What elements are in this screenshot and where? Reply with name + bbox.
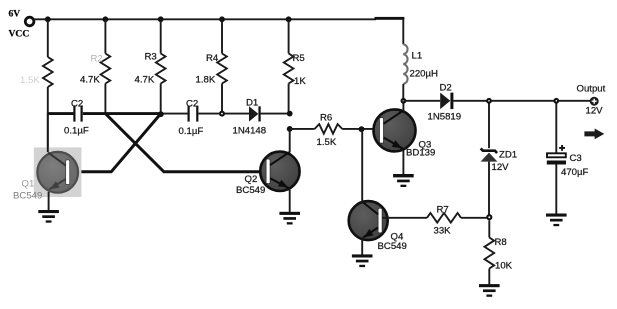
svg-text:R8: R8 [495, 237, 507, 248]
svg-text:R3: R3 [145, 52, 157, 63]
node X [158, 111, 164, 117]
node ZD1/R7/R8 [486, 214, 492, 220]
svg-text:R6: R6 [320, 113, 332, 124]
resistor R8 [484, 220, 512, 284]
svg-text:R5: R5 [293, 53, 305, 64]
transistor Q1 highlight [34, 147, 82, 197]
node rail R4 [219, 16, 225, 22]
svg-text:D2: D2 [440, 83, 452, 94]
wire cross-couple A (to Q2 base) [105, 114, 266, 172]
node rail R5 [286, 16, 292, 22]
ground Q1 [38, 210, 59, 223]
node rail R2 [103, 16, 109, 22]
resistor R1 [20, 19, 53, 152]
svg-text:12V: 12V [586, 106, 604, 117]
svg-text:C3: C3 [570, 153, 582, 164]
svg-text:L1: L1 [412, 51, 423, 62]
svg-text:BC549: BC549 [236, 185, 265, 196]
ground C3 [546, 214, 567, 227]
svg-text:1.5K: 1.5K [20, 75, 40, 86]
inductor L1 [403, 44, 438, 101]
wire thick rail segment [375, 17, 405, 20]
node C3 top [553, 98, 559, 104]
svg-text:1N4148: 1N4148 [233, 126, 267, 137]
wire top rail [34, 18, 376, 20]
6V supply terminal [9, 9, 34, 40]
svg-text:0.1µF: 0.1µF [179, 126, 204, 137]
output arrow [584, 129, 604, 140]
node rail R3 [158, 16, 164, 22]
node ZD1 top [486, 98, 492, 104]
svg-text:10K: 10K [495, 261, 513, 272]
transistor Q1 BC549 [13, 114, 78, 211]
ground Q4 [352, 254, 373, 267]
resistor R4 [196, 19, 227, 113]
svg-text:R2: R2 [91, 54, 103, 65]
output terminal [577, 84, 606, 117]
svg-text:1.5K: 1.5K [317, 137, 337, 148]
svg-text:220µH: 220µH [410, 69, 439, 80]
svg-text:Q2: Q2 [245, 174, 258, 185]
wire L1 drop [402, 20, 404, 45]
node C2R R4 [219, 111, 225, 117]
transistor Q4 BC549 [349, 129, 407, 255]
diode D1 [233, 98, 267, 137]
resistor R5 [284, 19, 307, 113]
diode D2 [403, 83, 590, 123]
resistor R6 [290, 113, 380, 149]
svg-text:6V: 6V [9, 9, 21, 20]
node Q3 base / Q4 collector [359, 126, 365, 132]
svg-text:1.8K: 1.8K [196, 75, 216, 86]
node R6 tap [287, 126, 293, 132]
svg-text:C2: C2 [71, 99, 83, 110]
transistor Q3 BD139 [374, 101, 436, 175]
wire main horizontal left (thick, C2 to X node) [48, 112, 161, 115]
capacitor C2 (right) [179, 99, 204, 138]
svg-text:470µF: 470µF [561, 167, 589, 178]
svg-text:R7: R7 [437, 205, 449, 216]
svg-text:BD139: BD139 [406, 148, 435, 159]
resistor R2 [80, 19, 110, 113]
wire main horizontal right (C2 to D1 to Q2 collector node) [161, 113, 290, 115]
svg-text:4.7K: 4.7K [80, 75, 100, 86]
node L1/D2/Q3 [401, 98, 407, 104]
svg-text:Q1: Q1 [22, 179, 35, 190]
svg-text:1N5819: 1N5819 [428, 112, 462, 123]
svg-text:33K: 33K [434, 226, 452, 237]
svg-text:0.1µF: 0.1µF [64, 126, 89, 137]
svg-text:12V: 12V [492, 162, 510, 173]
svg-text:C2: C2 [186, 99, 198, 110]
svg-text:BC549: BC549 [13, 190, 42, 201]
resistor R3 [135, 19, 166, 114]
svg-text:BC549: BC549 [378, 241, 407, 252]
svg-text:Output: Output [577, 84, 606, 95]
transistor Q2 BC549 [236, 129, 300, 212]
svg-text:4.7K: 4.7K [135, 75, 155, 86]
zener diode ZD1 [481, 101, 518, 215]
capacitor C3 [547, 101, 589, 214]
svg-text:D1: D1 [246, 98, 258, 109]
node rail R1 [45, 16, 51, 22]
capacitor C2 (left) [64, 99, 89, 137]
wire cross-couple B (to Q1 base) [70, 114, 161, 172]
svg-text:1K: 1K [294, 76, 306, 87]
ground R8 [479, 284, 500, 297]
resistor R7 [382, 205, 487, 237]
ground Q2 [279, 212, 300, 225]
svg-text:R4: R4 [206, 53, 219, 64]
ground Q3 [393, 174, 414, 187]
node D1 out [287, 111, 293, 117]
svg-text:ZD1: ZD1 [499, 150, 517, 161]
svg-text:VCC: VCC [9, 28, 30, 39]
